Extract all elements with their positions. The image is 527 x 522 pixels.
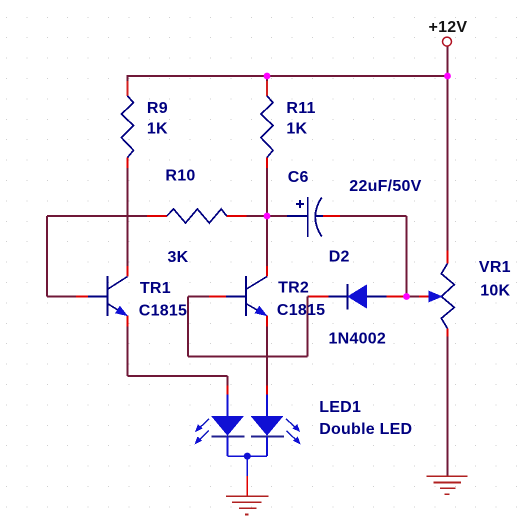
label D2	[329, 248, 350, 265]
capacitor C6	[287, 197, 340, 237]
value 22uF/50V (C6)	[349, 178, 421, 195]
potentiometer VR1	[419, 251, 454, 337]
label +12V	[429, 19, 468, 36]
value Double LED (LED1)	[319, 421, 412, 438]
svg-text:R11: R11	[286, 100, 315, 117]
node LED cathode junction	[244, 453, 251, 460]
label TR1	[140, 280, 171, 297]
value 1N4002 (D2)	[329, 331, 387, 348]
label LED1	[319, 399, 361, 416]
power terminal +12V	[443, 37, 452, 46]
svg-text:22uF/50V: 22uF/50V	[349, 178, 421, 195]
wire +12V rail to VR1	[447, 76, 449, 251]
svg-text:R9: R9	[147, 100, 168, 117]
resistor R10	[147, 209, 247, 223]
wire TR2 base left	[188, 296, 209, 298]
svg-text:3K: 3K	[168, 249, 189, 266]
wire detour bottom run	[188, 355, 308, 357]
wire detour up to D2 cathode	[307, 297, 309, 357]
label VR1	[479, 259, 511, 276]
svg-text:C1815: C1815	[277, 302, 325, 319]
label R10	[165, 168, 195, 185]
svg-text:Double LED: Double LED	[319, 421, 412, 438]
value C1815 (TR1)	[139, 303, 187, 320]
svg-text:1K: 1K	[147, 121, 168, 138]
label TR2	[278, 279, 309, 296]
label R9	[147, 100, 168, 117]
value 10K (VR1)	[480, 283, 510, 300]
wire top rail	[128, 75, 448, 77]
value 1K (R11)	[286, 121, 307, 138]
ground (below VR1)	[427, 476, 468, 494]
value 3K (R10)	[168, 249, 189, 266]
wire R9 top lead	[127, 75, 129, 81]
ground (below LED1)	[226, 476, 269, 515]
svg-text:+12V: +12V	[429, 19, 468, 36]
wire R10 right to node	[247, 215, 267, 217]
wire C6 down to D2 node	[406, 216, 408, 297]
svg-text:C1815: C1815	[139, 303, 187, 320]
svg-text:1N4002: 1N4002	[329, 331, 387, 348]
wire node to VR1 wiper	[407, 296, 420, 298]
wire to D2 cathode	[308, 296, 310, 298]
wire node to C6	[267, 215, 287, 217]
transistor TR2	[209, 266, 267, 327]
wire R11 bottom to TR2 collector	[266, 168, 268, 266]
wire D2 anode to node	[402, 296, 407, 298]
svg-text:1K: 1K	[286, 121, 307, 138]
wire TR2 emitter down	[266, 327, 268, 386]
svg-text:10K: 10K	[480, 283, 510, 300]
LED1 double LED	[195, 386, 301, 476]
value 1K (R9)	[147, 121, 168, 138]
wire LED1 left anode drop	[227, 376, 229, 386]
wire TR1 emitter down	[127, 327, 129, 376]
node rail/+12V junction	[444, 73, 451, 80]
svg-text:TR1: TR1	[140, 280, 171, 297]
value C1815 (TR2)	[277, 302, 325, 319]
svg-text:TR2: TR2	[278, 279, 309, 296]
svg-text:VR1: VR1	[479, 259, 511, 276]
wire TR2 base detour down	[187, 297, 189, 357]
wire R11 top lead	[266, 75, 268, 81]
node rail/R11 junction	[264, 73, 271, 80]
svg-text:R10: R10	[165, 168, 195, 185]
wire R9 bottom to TR1 collector	[127, 168, 129, 266]
resistor R9	[121, 81, 133, 168]
wire R10 row left	[47, 215, 147, 217]
diode D2	[309, 284, 403, 310]
node R10/R11/C6 junction	[264, 213, 271, 220]
svg-text:LED1: LED1	[319, 399, 361, 416]
transistor TR1	[76, 266, 128, 327]
resistor R11	[261, 81, 273, 168]
wire C6 right run	[340, 215, 407, 217]
svg-text:C6: C6	[288, 169, 309, 186]
wire +12V stem	[447, 47, 449, 77]
wire left detour vertical	[46, 216, 48, 297]
wire VR1 bottom to ground	[447, 337, 449, 477]
node D2/VR1 junction	[403, 293, 410, 300]
label R11	[286, 100, 315, 117]
svg-text:D2: D2	[329, 248, 350, 265]
wire TR1 base run	[47, 296, 76, 298]
label C6	[288, 169, 309, 186]
wire TR1 emitter row	[128, 375, 228, 377]
